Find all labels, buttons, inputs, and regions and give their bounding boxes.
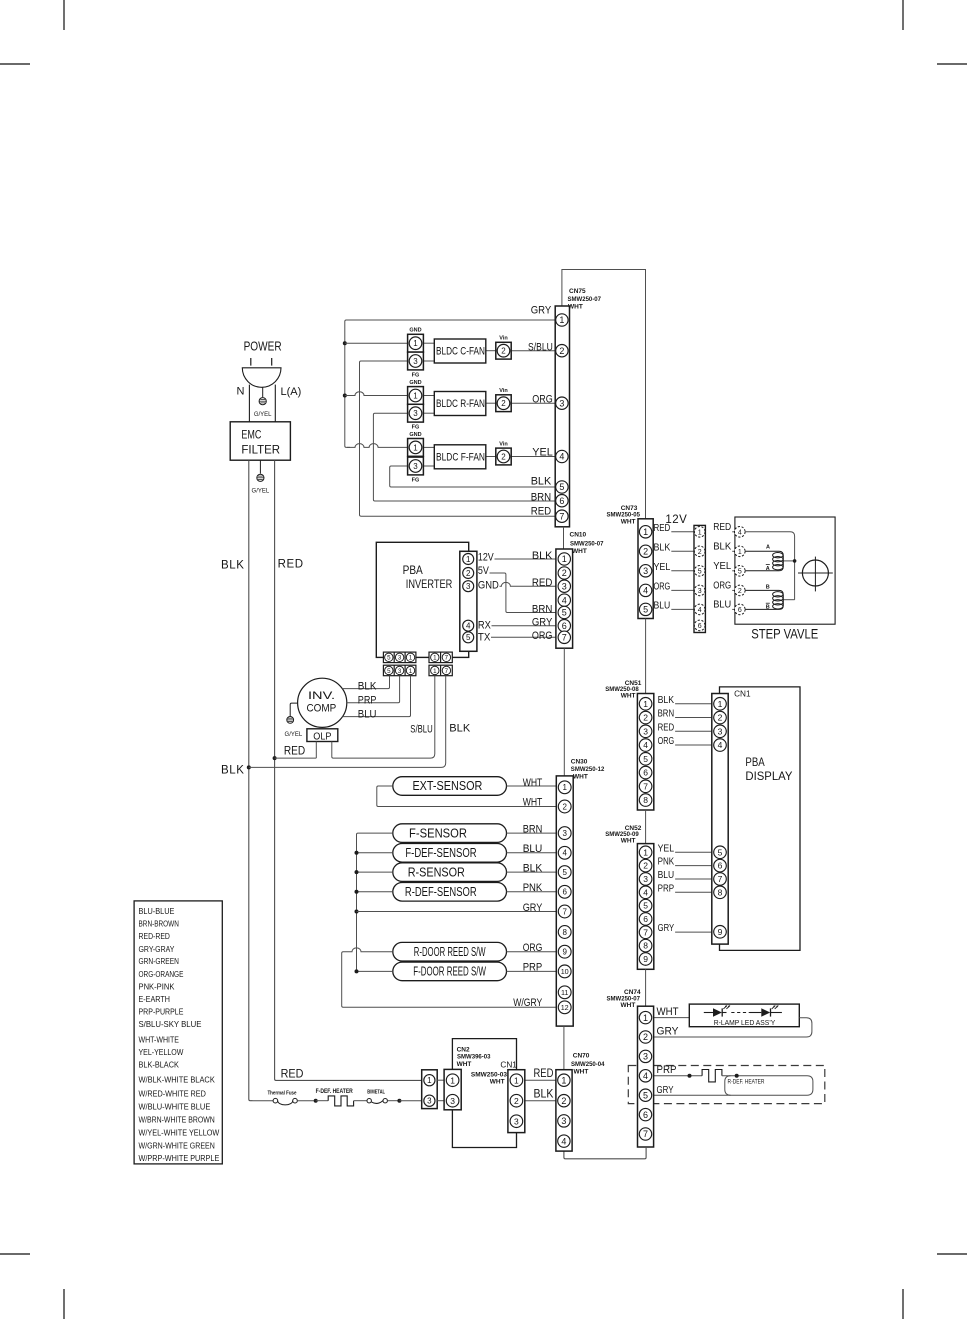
svg-text:ORG: ORG bbox=[532, 630, 553, 642]
svg-text:2: 2 bbox=[514, 1096, 519, 1106]
svg-text:4: 4 bbox=[643, 1071, 648, 1081]
svg-text:1: 1 bbox=[643, 527, 648, 537]
svg-text:OLP: OLP bbox=[313, 731, 331, 742]
svg-text:WHT: WHT bbox=[621, 837, 636, 844]
svg-text:RED-RED: RED-RED bbox=[139, 931, 170, 941]
svg-text:4: 4 bbox=[643, 887, 648, 897]
svg-text:7: 7 bbox=[445, 655, 449, 662]
svg-text:RED: RED bbox=[278, 559, 304, 571]
svg-text:2: 2 bbox=[501, 347, 506, 356]
svg-text:5: 5 bbox=[738, 568, 742, 575]
svg-text:PBA: PBA bbox=[403, 563, 423, 577]
svg-text:SMW396-03: SMW396-03 bbox=[457, 1054, 491, 1061]
svg-text:1: 1 bbox=[514, 1075, 519, 1085]
svg-text:B: B bbox=[766, 605, 770, 611]
svg-text:FG: FG bbox=[412, 478, 420, 484]
svg-text:6: 6 bbox=[562, 888, 567, 897]
svg-text:1: 1 bbox=[562, 783, 567, 792]
svg-text:3: 3 bbox=[562, 829, 567, 838]
svg-text:2: 2 bbox=[643, 861, 648, 871]
svg-text:6: 6 bbox=[643, 1110, 648, 1120]
svg-text:7: 7 bbox=[559, 511, 564, 521]
svg-text:BLK: BLK bbox=[358, 680, 377, 692]
svg-text:4: 4 bbox=[738, 529, 742, 536]
svg-text:BLU: BLU bbox=[658, 869, 675, 881]
svg-text:Vin: Vin bbox=[499, 442, 508, 448]
svg-text:1: 1 bbox=[738, 549, 742, 556]
svg-text:FG: FG bbox=[412, 425, 420, 431]
svg-text:YEL-YELLOW: YEL-YELLOW bbox=[139, 1047, 184, 1057]
svg-text:G/YEL: G/YEL bbox=[285, 732, 303, 738]
svg-text:1: 1 bbox=[698, 529, 702, 536]
svg-text:2: 2 bbox=[643, 547, 648, 557]
svg-text:WHT: WHT bbox=[574, 1068, 589, 1075]
svg-text:3: 3 bbox=[718, 726, 723, 736]
svg-text:PNK: PNK bbox=[523, 882, 543, 894]
svg-text:S/BLU-SKY BLUE: S/BLU-SKY BLUE bbox=[139, 1019, 202, 1029]
svg-text:3: 3 bbox=[450, 1096, 455, 1106]
svg-text:2: 2 bbox=[562, 802, 567, 811]
svg-text:BLK: BLK bbox=[221, 765, 245, 777]
svg-text:3: 3 bbox=[643, 874, 648, 884]
svg-text:RED: RED bbox=[534, 1068, 554, 1080]
svg-text:SMW250-04: SMW250-04 bbox=[571, 1061, 605, 1068]
svg-text:ORG: ORG bbox=[658, 735, 675, 747]
svg-text:CN1: CN1 bbox=[500, 1061, 517, 1070]
svg-text:BRN: BRN bbox=[658, 708, 675, 720]
svg-text:GRN-GREEN: GRN-GREEN bbox=[139, 956, 179, 966]
svg-text:BLU: BLU bbox=[523, 843, 543, 855]
svg-text:BLU-BLUE: BLU-BLUE bbox=[139, 906, 175, 916]
svg-text:WHT: WHT bbox=[621, 692, 636, 699]
svg-text:F-DEF-SENSOR: F-DEF-SENSOR bbox=[405, 846, 476, 860]
svg-text:WHT: WHT bbox=[573, 773, 588, 780]
svg-text:WHT: WHT bbox=[457, 1061, 472, 1068]
svg-text:RED: RED bbox=[713, 521, 731, 533]
svg-text:GRY: GRY bbox=[657, 1026, 680, 1038]
svg-text:BLU: BLU bbox=[654, 599, 671, 611]
svg-text:7: 7 bbox=[562, 907, 567, 916]
svg-text:1: 1 bbox=[450, 1075, 455, 1085]
svg-text:PNK: PNK bbox=[658, 856, 675, 868]
svg-text:PNK-PINK: PNK-PINK bbox=[139, 982, 175, 992]
svg-text:4: 4 bbox=[562, 849, 567, 858]
svg-text:5V: 5V bbox=[478, 565, 490, 577]
svg-text:ORG: ORG bbox=[713, 579, 731, 591]
svg-text:1: 1 bbox=[561, 1075, 566, 1085]
svg-text:3: 3 bbox=[413, 462, 418, 471]
svg-text:SMW250-05: SMW250-05 bbox=[607, 512, 641, 519]
svg-text:RED: RED bbox=[281, 1067, 304, 1081]
svg-text:GRY: GRY bbox=[531, 305, 552, 317]
svg-text:3: 3 bbox=[466, 582, 471, 591]
svg-text:SMW250-12: SMW250-12 bbox=[571, 766, 605, 773]
svg-text:WHT: WHT bbox=[568, 304, 583, 311]
svg-text:8: 8 bbox=[643, 795, 648, 805]
svg-text:WHT: WHT bbox=[572, 548, 587, 555]
svg-text:1: 1 bbox=[413, 391, 418, 400]
svg-text:FILTER: FILTER bbox=[241, 443, 280, 457]
svg-text:3: 3 bbox=[398, 655, 402, 662]
svg-text:BRN: BRN bbox=[531, 491, 552, 503]
svg-text:BLK: BLK bbox=[532, 550, 553, 562]
svg-text:INV.: INV. bbox=[308, 690, 335, 702]
svg-text:ORG-ORANGE: ORG-ORANGE bbox=[139, 969, 184, 979]
svg-text:10: 10 bbox=[561, 967, 569, 976]
svg-text:6: 6 bbox=[559, 496, 564, 506]
svg-text:BLK-BLACK: BLK-BLACK bbox=[139, 1060, 180, 1070]
svg-text:YEL: YEL bbox=[713, 560, 731, 572]
svg-text:1: 1 bbox=[643, 1013, 648, 1023]
svg-text:BRN: BRN bbox=[532, 603, 553, 615]
svg-text:1: 1 bbox=[409, 655, 413, 662]
svg-text:4: 4 bbox=[643, 740, 648, 750]
svg-text:W/BLU-WHITE BLUE: W/BLU-WHITE BLUE bbox=[139, 1101, 211, 1111]
svg-text:GRY: GRY bbox=[532, 617, 553, 629]
svg-text:8: 8 bbox=[718, 887, 723, 897]
svg-text:CN75: CN75 bbox=[569, 288, 586, 295]
svg-text:BLK: BLK bbox=[654, 541, 671, 553]
svg-text:POWER: POWER bbox=[244, 340, 282, 354]
svg-text:8: 8 bbox=[643, 941, 648, 951]
svg-text:G/YEL: G/YEL bbox=[252, 489, 270, 495]
svg-text:DISPLAY: DISPLAY bbox=[745, 769, 792, 783]
svg-text:5: 5 bbox=[559, 482, 564, 492]
svg-text:3: 3 bbox=[698, 588, 702, 595]
svg-text:PRP-PURPLE: PRP-PURPLE bbox=[139, 1007, 184, 1017]
svg-text:3: 3 bbox=[559, 398, 564, 408]
svg-text:G/YEL: G/YEL bbox=[254, 412, 272, 418]
svg-text:1: 1 bbox=[427, 1076, 432, 1085]
svg-text:BRN-BROWN: BRN-BROWN bbox=[139, 918, 179, 928]
svg-text:6: 6 bbox=[562, 621, 567, 631]
svg-text:BLK: BLK bbox=[221, 560, 245, 572]
svg-text:PBA: PBA bbox=[745, 755, 764, 769]
svg-text:COMP: COMP bbox=[307, 702, 337, 714]
svg-text:WHT-WHITE: WHT-WHITE bbox=[139, 1034, 180, 1044]
svg-text:3: 3 bbox=[643, 726, 648, 736]
svg-text:1: 1 bbox=[562, 554, 567, 564]
svg-text:W/GRY: W/GRY bbox=[513, 997, 543, 1009]
svg-text:1: 1 bbox=[433, 655, 437, 662]
svg-text:4: 4 bbox=[562, 595, 567, 605]
svg-text:CN10: CN10 bbox=[570, 532, 587, 539]
svg-text:BLDC C-FAN: BLDC C-FAN bbox=[436, 346, 485, 358]
svg-text:1: 1 bbox=[643, 847, 648, 857]
svg-text:2: 2 bbox=[466, 569, 471, 578]
svg-text:A: A bbox=[766, 545, 770, 551]
svg-text:3: 3 bbox=[562, 581, 567, 591]
svg-text:WHT: WHT bbox=[621, 519, 636, 526]
svg-text:R-DOOR REED S/W: R-DOOR REED S/W bbox=[414, 945, 486, 959]
svg-text:5: 5 bbox=[387, 668, 391, 675]
svg-text:RED: RED bbox=[658, 721, 675, 733]
svg-text:R-DEF-SENSOR: R-DEF-SENSOR bbox=[405, 885, 477, 899]
svg-text:6: 6 bbox=[718, 861, 723, 871]
svg-text:5: 5 bbox=[698, 568, 702, 575]
svg-text:5: 5 bbox=[643, 754, 648, 764]
svg-text:3: 3 bbox=[413, 357, 418, 366]
svg-text:RED: RED bbox=[531, 505, 552, 517]
svg-text:WHT: WHT bbox=[621, 1002, 636, 1009]
svg-text:5: 5 bbox=[643, 901, 648, 911]
svg-text:BLDC R-FAN: BLDC R-FAN bbox=[436, 398, 485, 410]
svg-text:SMW250-07: SMW250-07 bbox=[568, 296, 602, 303]
svg-text:EMC: EMC bbox=[241, 428, 261, 442]
svg-text:3: 3 bbox=[561, 1116, 566, 1126]
svg-text:1: 1 bbox=[466, 555, 471, 564]
svg-text:WHT: WHT bbox=[523, 777, 543, 789]
svg-text:E-EARTH: E-EARTH bbox=[139, 994, 170, 1004]
svg-text:GND: GND bbox=[409, 328, 421, 334]
svg-text:GND: GND bbox=[478, 580, 499, 592]
svg-text:Vin: Vin bbox=[499, 388, 508, 394]
svg-text:BLK: BLK bbox=[449, 722, 471, 734]
svg-text:Thermal Fuse: Thermal Fuse bbox=[267, 1091, 296, 1097]
svg-text:WHT: WHT bbox=[523, 797, 543, 809]
svg-text:9: 9 bbox=[718, 927, 723, 937]
svg-text:BLK: BLK bbox=[658, 694, 675, 706]
svg-text:1: 1 bbox=[413, 443, 418, 452]
svg-text:RX: RX bbox=[478, 619, 492, 631]
svg-text:F-DOOR REED S/W: F-DOOR REED S/W bbox=[413, 965, 486, 979]
svg-text:CN1: CN1 bbox=[734, 690, 751, 699]
svg-text:GRY: GRY bbox=[657, 1085, 674, 1096]
svg-text:4: 4 bbox=[698, 607, 702, 614]
svg-text:9: 9 bbox=[643, 954, 648, 964]
svg-text:W/YEL-WHITE YELLOW: W/YEL-WHITE YELLOW bbox=[139, 1128, 220, 1138]
svg-text:3: 3 bbox=[398, 668, 402, 675]
svg-text:7: 7 bbox=[445, 668, 449, 675]
svg-text:W/RED-WHITE RED: W/RED-WHITE RED bbox=[139, 1088, 206, 1098]
svg-text:RED: RED bbox=[654, 522, 671, 534]
svg-text:12: 12 bbox=[561, 1003, 569, 1012]
svg-text:S/BLU: S/BLU bbox=[410, 723, 432, 735]
svg-text:7: 7 bbox=[643, 1129, 648, 1139]
svg-text:2: 2 bbox=[738, 588, 742, 595]
svg-text:9: 9 bbox=[562, 948, 567, 957]
svg-text:PRP: PRP bbox=[523, 962, 543, 974]
svg-text:11: 11 bbox=[561, 988, 568, 997]
svg-text:1: 1 bbox=[433, 668, 437, 675]
svg-text:INVERTER: INVERTER bbox=[406, 577, 453, 591]
svg-text:BRN: BRN bbox=[523, 823, 543, 835]
svg-text:A: A bbox=[766, 566, 770, 572]
svg-text:YEL: YEL bbox=[532, 447, 553, 459]
svg-text:5: 5 bbox=[466, 633, 471, 642]
svg-text:BLK: BLK bbox=[534, 1089, 554, 1101]
svg-text:GND: GND bbox=[409, 380, 421, 386]
svg-text:2: 2 bbox=[501, 452, 506, 461]
svg-text:R-SENSOR: R-SENSOR bbox=[408, 865, 465, 879]
svg-text:1: 1 bbox=[413, 339, 418, 348]
svg-text:6: 6 bbox=[738, 607, 742, 614]
svg-text:6: 6 bbox=[643, 768, 648, 778]
svg-text:TX: TX bbox=[478, 632, 491, 644]
svg-text:YEL: YEL bbox=[658, 842, 675, 854]
svg-text:3: 3 bbox=[514, 1116, 519, 1126]
svg-text:3: 3 bbox=[427, 1097, 432, 1106]
svg-text:5: 5 bbox=[387, 655, 391, 662]
svg-text:GRY: GRY bbox=[658, 922, 675, 934]
svg-text:6: 6 bbox=[698, 623, 702, 630]
svg-text:Vin: Vin bbox=[499, 336, 508, 342]
svg-text:WHT: WHT bbox=[490, 1078, 505, 1085]
svg-text:BLU: BLU bbox=[713, 598, 731, 610]
svg-text:ORG: ORG bbox=[532, 394, 553, 406]
svg-text:CN2: CN2 bbox=[457, 1047, 470, 1054]
svg-text:2: 2 bbox=[643, 713, 648, 723]
svg-text:7: 7 bbox=[718, 874, 723, 884]
svg-text:BLK: BLK bbox=[531, 475, 552, 487]
svg-text:R-DEF. HEATER: R-DEF. HEATER bbox=[728, 1079, 765, 1086]
svg-text:W/GRN-WHITE GREEN: W/GRN-WHITE GREEN bbox=[139, 1140, 215, 1150]
svg-text:ORG: ORG bbox=[523, 942, 543, 954]
svg-text:BLK: BLK bbox=[523, 862, 543, 874]
svg-text:RED: RED bbox=[284, 744, 306, 758]
svg-text:PRP: PRP bbox=[358, 694, 377, 706]
svg-text:B: B bbox=[766, 585, 770, 591]
svg-text:2: 2 bbox=[718, 713, 723, 723]
svg-text:W/BLK-WHITE BLACK: W/BLK-WHITE BLACK bbox=[139, 1075, 216, 1085]
svg-text:3: 3 bbox=[643, 1052, 648, 1062]
svg-text:5: 5 bbox=[643, 1090, 648, 1100]
svg-text:1: 1 bbox=[559, 315, 564, 325]
svg-text:2: 2 bbox=[561, 1096, 566, 1106]
svg-text:2: 2 bbox=[698, 549, 702, 556]
svg-text:1: 1 bbox=[409, 668, 413, 675]
svg-text:FG: FG bbox=[412, 373, 420, 379]
svg-text:R-LAMP LED ASS’Y: R-LAMP LED ASS’Y bbox=[714, 1020, 776, 1027]
svg-text:3: 3 bbox=[413, 409, 418, 418]
svg-text:1: 1 bbox=[718, 699, 723, 709]
svg-text:YEL: YEL bbox=[654, 561, 671, 573]
svg-text:BLK: BLK bbox=[713, 540, 731, 552]
svg-text:4: 4 bbox=[718, 740, 723, 750]
svg-text:BLDC F-FAN: BLDC F-FAN bbox=[436, 451, 485, 463]
svg-text:STEP VAVLE: STEP VAVLE bbox=[751, 627, 818, 642]
svg-text:2: 2 bbox=[643, 1032, 648, 1042]
svg-text:CN30: CN30 bbox=[571, 759, 588, 766]
svg-text:8: 8 bbox=[562, 928, 567, 937]
svg-text:S/BLU: S/BLU bbox=[528, 341, 553, 353]
svg-text:3: 3 bbox=[643, 566, 648, 576]
svg-text:F-SENSOR: F-SENSOR bbox=[409, 826, 467, 840]
svg-text:PRP: PRP bbox=[658, 882, 675, 894]
svg-text:2: 2 bbox=[559, 346, 564, 356]
svg-text:EXT-SENSOR: EXT-SENSOR bbox=[412, 779, 482, 793]
svg-text:ORG: ORG bbox=[654, 580, 671, 592]
svg-text:BLU: BLU bbox=[358, 708, 377, 720]
svg-text:F-DEF. HEATER: F-DEF. HEATER bbox=[316, 1089, 354, 1095]
svg-text:7: 7 bbox=[562, 633, 567, 643]
svg-text:7: 7 bbox=[643, 927, 648, 937]
svg-text:WHT: WHT bbox=[657, 1006, 679, 1018]
svg-text:4: 4 bbox=[643, 586, 648, 596]
svg-text:12V: 12V bbox=[478, 551, 494, 563]
svg-text:6: 6 bbox=[643, 914, 648, 924]
svg-text:N: N bbox=[237, 386, 245, 398]
svg-text:CN70: CN70 bbox=[573, 1052, 590, 1059]
svg-text:4: 4 bbox=[466, 622, 471, 631]
svg-text:SMW250-07: SMW250-07 bbox=[570, 541, 604, 548]
svg-text:GRY: GRY bbox=[523, 902, 543, 914]
svg-text:GRY-GRAY: GRY-GRAY bbox=[139, 944, 175, 954]
svg-text:5: 5 bbox=[562, 868, 567, 877]
svg-text:4: 4 bbox=[561, 1136, 566, 1146]
svg-text:W/PRP-WHITE PURPLE: W/PRP-WHITE PURPLE bbox=[139, 1153, 220, 1163]
svg-text:5: 5 bbox=[718, 847, 723, 857]
svg-text:L(A): L(A) bbox=[281, 386, 302, 398]
svg-text:4: 4 bbox=[559, 452, 564, 462]
svg-text:BIMETAL: BIMETAL bbox=[367, 1090, 385, 1096]
svg-text:PRP: PRP bbox=[657, 1064, 677, 1076]
svg-text:GND: GND bbox=[409, 432, 421, 438]
svg-text:2: 2 bbox=[562, 568, 567, 578]
svg-text:W/BRN-WHITE BROWN: W/BRN-WHITE BROWN bbox=[139, 1114, 215, 1124]
svg-text:2: 2 bbox=[501, 399, 506, 408]
svg-text:5: 5 bbox=[562, 608, 567, 618]
svg-text:RED: RED bbox=[532, 577, 553, 589]
svg-text:5: 5 bbox=[643, 605, 648, 615]
svg-text:7: 7 bbox=[643, 781, 648, 791]
svg-text:1: 1 bbox=[643, 699, 648, 709]
